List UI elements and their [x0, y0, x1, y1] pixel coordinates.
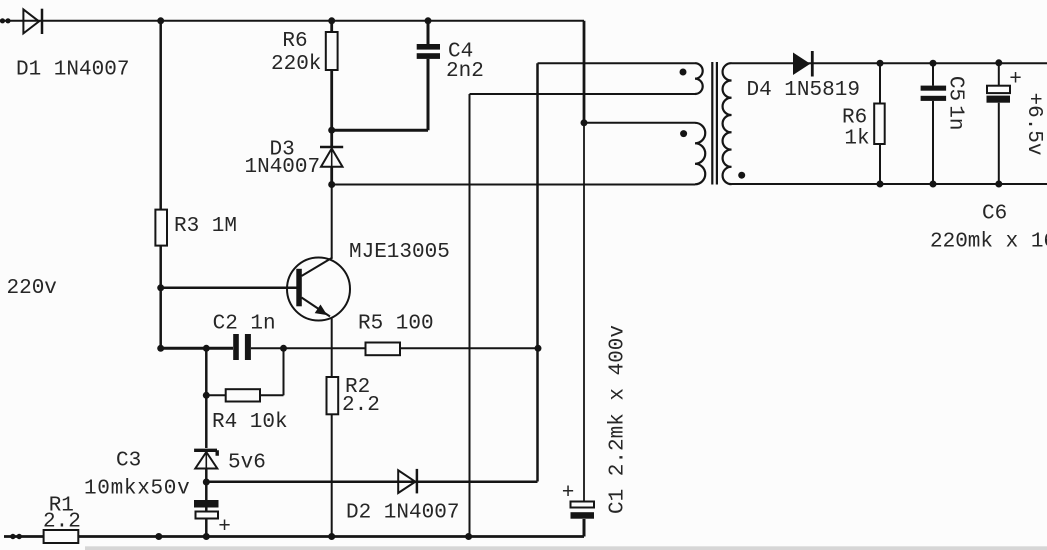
svg-text:+: + — [562, 482, 575, 505]
svg-text:D1 1N4007: D1 1N4007 — [16, 59, 129, 82]
svg-text:2n2: 2n2 — [446, 60, 484, 83]
svg-text:R4 10k: R4 10k — [212, 411, 288, 434]
svg-text:C5: C5 — [944, 76, 967, 101]
svg-text:220mk x 16v: 220mk x 16v — [930, 231, 1047, 254]
svg-text:2.2: 2.2 — [342, 394, 380, 417]
svg-text:R6: R6 — [842, 107, 867, 130]
svg-text:220v: 220v — [7, 277, 57, 300]
svg-text:1N4007: 1N4007 — [245, 156, 321, 179]
svg-text:C3: C3 — [116, 450, 141, 473]
svg-text:R6: R6 — [282, 30, 307, 53]
svg-text:+: + — [1009, 69, 1022, 92]
svg-text:1n: 1n — [944, 105, 967, 130]
svg-text:R3 1M: R3 1M — [174, 215, 237, 238]
svg-text:2.2: 2.2 — [43, 511, 81, 534]
svg-text:220k: 220k — [271, 53, 321, 76]
svg-text:+6.5v: +6.5v — [1022, 92, 1045, 155]
svg-text:1k: 1k — [844, 128, 869, 151]
svg-text:D2 1N4007: D2 1N4007 — [346, 502, 459, 525]
svg-text:5v6: 5v6 — [228, 452, 266, 475]
svg-text:C2 1n: C2 1n — [213, 313, 276, 336]
svg-text:C6: C6 — [982, 203, 1007, 226]
svg-text:C1 2.2mk x 400v: C1 2.2mk x 400v — [607, 325, 630, 514]
svg-text:MJE13005: MJE13005 — [349, 241, 450, 264]
svg-text:10mkx50v: 10mkx50v — [84, 478, 190, 501]
svg-text:R5 100: R5 100 — [358, 313, 434, 336]
svg-text:+: + — [218, 516, 231, 539]
svg-text:D4 1N5819: D4 1N5819 — [747, 79, 860, 102]
